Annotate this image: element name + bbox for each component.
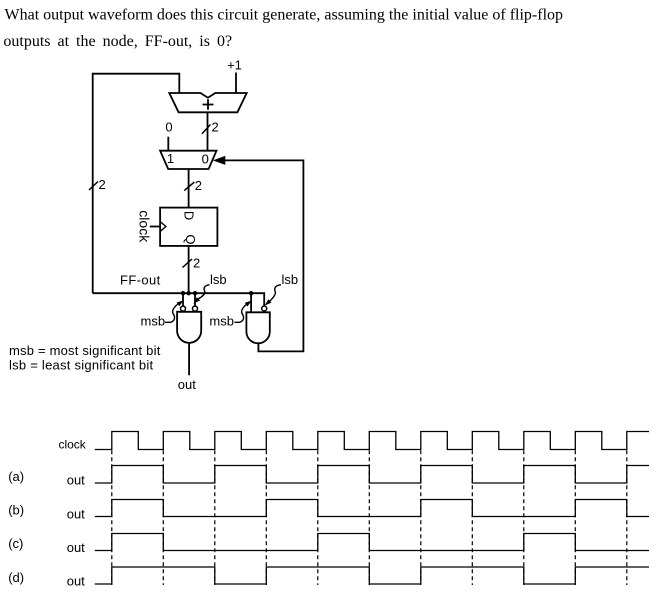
svg-text:clock: clock bbox=[58, 438, 86, 452]
svg-text:out: out bbox=[67, 473, 85, 488]
leader lsb right bbox=[269, 285, 281, 302]
waveform (b) out bbox=[95, 500, 649, 517]
bus slash on mux output bbox=[184, 182, 194, 191]
svg-text:clock: clock bbox=[136, 210, 152, 243]
wire clock input bbox=[150, 226, 160, 228]
wire feedback FF-out to adder left input bbox=[93, 74, 180, 294]
inverter bubble left gate msb input bbox=[181, 306, 186, 311]
leader lsb left bbox=[198, 285, 209, 299]
svg-text:(d): (d) bbox=[8, 570, 24, 585]
svg-text:+1: +1 bbox=[227, 58, 242, 73]
junction dot left gate lsb input bbox=[193, 291, 197, 295]
wire left gate input stub msb bbox=[182, 293, 184, 306]
dashed gridline t9 bbox=[574, 450, 576, 585]
wire right gate input stub msb bbox=[250, 293, 252, 312]
svg-text:(c): (c) bbox=[8, 536, 23, 551]
dashed gridline t4 bbox=[317, 450, 319, 585]
arrowhead lsb right bbox=[266, 300, 271, 305]
dashed gridline t10 bbox=[626, 450, 628, 585]
inverter bubble left gate lsb input bbox=[193, 306, 198, 311]
waveform (a) out bbox=[95, 466, 649, 484]
svg-text:(b): (b) bbox=[8, 503, 24, 518]
dashed gridline t3 bbox=[265, 450, 267, 585]
svg-text:2: 2 bbox=[212, 120, 219, 135]
dashed gridline t0 bbox=[111, 450, 113, 585]
wire left gate output to out bbox=[188, 343, 190, 375]
dashed gridline t8 bbox=[523, 450, 525, 585]
wire from +1 to adder bbox=[235, 73, 237, 94]
mux select arrowhead bbox=[214, 157, 225, 165]
clock waveform bbox=[95, 432, 649, 450]
svg-text:1: 1 bbox=[167, 151, 174, 166]
dashed gridline t2 bbox=[214, 450, 216, 585]
dashed gridline t7 bbox=[471, 450, 473, 585]
arrowhead lsb left bbox=[195, 298, 200, 303]
plus sign inside adder bbox=[203, 99, 214, 109]
leader msb left bbox=[165, 304, 178, 323]
junction dot FF output bbox=[186, 291, 190, 295]
svg-text:lsb: lsb bbox=[282, 272, 299, 287]
svg-text:FF-out: FF-out bbox=[120, 273, 161, 288]
wire flip-flop Q to FF-out node bbox=[188, 246, 190, 293]
flip-flop clock edge triangle bbox=[160, 222, 166, 232]
leader msb right bbox=[235, 304, 248, 323]
dashed gridline t6 bbox=[420, 450, 422, 585]
inverter bubble right gate lsb input bbox=[262, 306, 267, 311]
svg-text:out: out bbox=[178, 377, 196, 392]
arrowhead msb right bbox=[246, 301, 251, 305]
AND gate U5 right bbox=[246, 312, 269, 343]
mux U2 bbox=[160, 151, 216, 169]
svg-text:msb = most significant bit: msb = most significant bit bbox=[9, 343, 161, 358]
waveform (c) out bbox=[95, 534, 649, 551]
svg-text:msb: msb bbox=[209, 313, 234, 328]
AND gate U4 left bbox=[177, 312, 201, 343]
junction dot right gate msb input bbox=[249, 291, 253, 295]
svg-text:lsb = least significant bit: lsb = least significant bit bbox=[9, 357, 154, 372]
bus slash on adder output bbox=[202, 125, 211, 134]
svg-text:0: 0 bbox=[202, 151, 209, 166]
svg-text:2: 2 bbox=[99, 177, 106, 192]
svg-text:2: 2 bbox=[195, 178, 202, 193]
svg-text:lsb: lsb bbox=[210, 272, 227, 287]
svg-text:out: out bbox=[67, 574, 85, 589]
wire adder output to mux bbox=[207, 112, 209, 150]
arrowhead msb left bbox=[177, 301, 182, 305]
svg-text:outputs at the node, FF-out, i: outputs at the node, FF-out, is 0? bbox=[3, 33, 232, 50]
svg-text:0: 0 bbox=[165, 119, 172, 134]
junction dot left gate msb input bbox=[181, 291, 185, 295]
dashed gridline t5 bbox=[368, 450, 370, 585]
adder U1 bbox=[169, 93, 246, 112]
wire left gate input stub lsb bbox=[194, 293, 196, 306]
wire feedback right gate to mux select bbox=[225, 160, 304, 351]
bus slash on flip-flop output bbox=[183, 259, 193, 268]
wire constant 0 to mux input 1 bbox=[167, 137, 169, 151]
svg-text:2: 2 bbox=[193, 256, 200, 271]
svg-text:D: D bbox=[181, 211, 196, 220]
svg-text:What output waveform does this: What output waveform does this circuit g… bbox=[5, 7, 564, 24]
svg-text:(a): (a) bbox=[8, 469, 24, 484]
dashed gridline t1 bbox=[162, 450, 164, 585]
wire FF-out horizontal bus bbox=[93, 293, 265, 306]
waveform (d) out bbox=[95, 567, 649, 584]
svg-text:out: out bbox=[67, 506, 85, 521]
bus slash on left feedback wire bbox=[89, 182, 98, 191]
svg-text:Q: Q bbox=[183, 234, 198, 244]
svg-text:msb: msb bbox=[141, 313, 166, 328]
wire mux output to flip-flop D bbox=[188, 169, 190, 208]
flip-flop U3 bbox=[160, 208, 217, 246]
svg-text:out: out bbox=[67, 540, 85, 555]
